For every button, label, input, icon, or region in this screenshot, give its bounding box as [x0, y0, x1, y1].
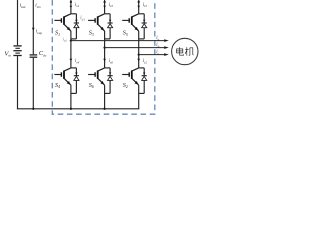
- wire leg3 collector drop: [138, 0, 140, 14]
- wire leg2 midpoint to lower collector: [104, 48, 106, 68]
- arrow i_s4: [70, 59, 73, 62]
- transistor S2 IGBT: [122, 68, 139, 85]
- svg-text:id1: id1: [80, 16, 85, 21]
- svg-text:is1: is1: [75, 3, 80, 8]
- svg-text:is5: is5: [143, 3, 148, 8]
- battery Vin bottom wire: [17, 56, 19, 109]
- arrow i_cap: [32, 28, 35, 31]
- wire leg3 emitter to bottom bus: [138, 85, 140, 109]
- diode D5 freewheel: [139, 14, 147, 39]
- diode D3 freewheel: [105, 14, 113, 39]
- wire phase c line: [139, 54, 165, 56]
- arrow i_s3: [103, 6, 106, 8]
- svg-text:is6: is6: [109, 59, 114, 64]
- capacitor Cdc plates: [30, 54, 38, 56]
- wire phase b line: [105, 47, 165, 49]
- wire leg2 emitter to midpoint: [104, 31, 106, 48]
- capacitor Cdc top wire: [32, 0, 34, 54]
- svg-text:is3: is3: [109, 3, 114, 8]
- battery Vin top wire: [17, 0, 19, 45]
- arrow i_s2: [137, 59, 140, 62]
- transistor S6 IGBT: [88, 68, 105, 85]
- arrow i_s6: [103, 59, 106, 62]
- arrow i_s5: [137, 6, 140, 8]
- node leg3 phase tap: [138, 53, 140, 55]
- transistor S4 IGBT: [54, 68, 71, 85]
- svg-text:is2: is2: [143, 59, 148, 64]
- arrow phase b: [164, 46, 169, 49]
- battery Vin plates: [13, 46, 21, 56]
- node leg2 phase tap: [103, 46, 105, 48]
- arrow i_s1: [70, 6, 73, 8]
- diode D4 freewheel: [71, 68, 79, 94]
- svg-text:is4: is4: [75, 59, 80, 64]
- diode D6 freewheel: [105, 68, 113, 94]
- wire leg1 midpoint to lower collector: [70, 41, 72, 68]
- node leg2 top junction: [103, 1, 105, 3]
- diode D1 freewheel: [71, 14, 79, 39]
- wire leg2 collector drop: [104, 0, 106, 14]
- svg-text:ic: ic: [156, 50, 159, 55]
- arrow phase c: [164, 53, 169, 56]
- motor circle: [172, 38, 198, 64]
- bottom DC bus wire: [17, 108, 139, 110]
- wire leg2 emitter to bottom bus: [104, 85, 106, 109]
- node leg1 top junction: [70, 1, 72, 3]
- motor label 电机 (drawn strokes): [177, 47, 194, 55]
- arrow phase a: [164, 39, 169, 42]
- svg-text:ia: ia: [156, 36, 159, 41]
- transistor S5 IGBT: [122, 14, 139, 31]
- junction leg1-bus: [70, 108, 72, 110]
- diode D2 freewheel: [139, 68, 147, 94]
- wire leg3 midpoint to lower collector: [138, 55, 140, 68]
- wire leg1 emitter to bottom bus: [70, 85, 72, 109]
- junction Cdc-bus: [32, 108, 34, 110]
- wire leg1 emitter to midpoint: [70, 31, 72, 41]
- wire leg1 collector drop: [70, 0, 72, 14]
- transistor S1 IGBT: [54, 14, 71, 31]
- wire leg3 emitter to midpoint: [138, 31, 140, 55]
- node leg3 top junction: [138, 1, 140, 3]
- capacitor Cdc bottom wire: [32, 58, 34, 109]
- svg-text:ib: ib: [156, 43, 159, 48]
- transistor S3 IGBT: [88, 14, 105, 31]
- wire phase a line: [71, 40, 165, 42]
- node leg1 phase tap: [70, 39, 72, 41]
- dashed inverter boundary box: [52, 0, 155, 114]
- junction leg2-bus: [103, 108, 105, 110]
